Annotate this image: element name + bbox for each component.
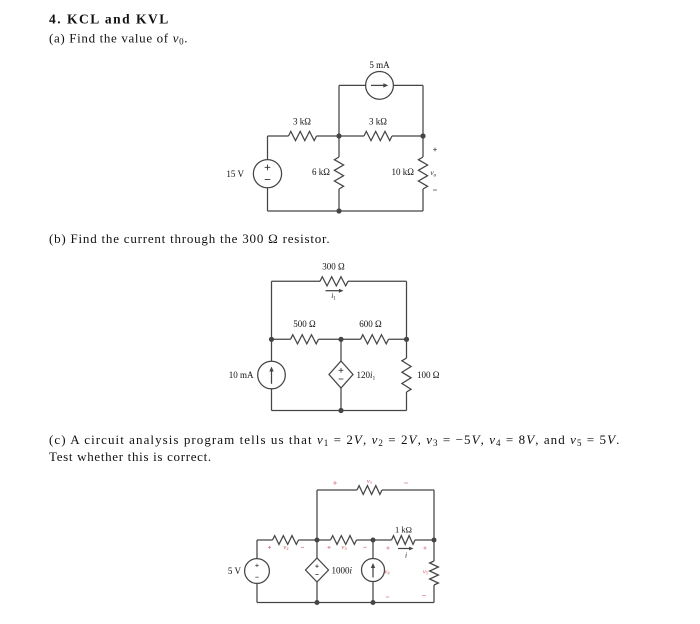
wire: middle branch lower [338,189,340,211]
wire: isrc branch upper [372,540,374,559]
label - of v3 [363,546,366,548]
wire: middle branch below diamond [340,388,342,411]
svg-text:1 kΩ: 1 kΩ [395,525,412,535]
svg-text:600 Ω: 600 Ω [359,319,382,329]
junction dot node B-right [404,337,409,342]
svg-text:15 V: 15 V [226,169,244,179]
wire: middle branch upper [338,136,340,157]
junction dot node C1 [315,538,320,543]
svg-text:500 Ω: 500 Ω [293,319,316,329]
resistor Rv2 (v2) [273,536,299,545]
svg-text:300 Ω: 300 Ω [322,261,345,271]
wire: mid segment left of R500 [272,338,291,340]
wire: node2 to R1k [373,539,392,541]
resistor R3 6 k&#937; vertical [334,157,343,189]
label - of v1 [404,482,408,484]
label - of vo [433,189,437,191]
wire: left branch to source [271,339,273,361]
svg-text:10 kΩ: 10 kΩ [392,167,415,177]
wire: top rail left of Rv1 [317,489,357,491]
current source I3 (v4) [362,559,385,582]
svg-text:6 kΩ: 6 kΩ [312,167,330,177]
label + of v3 [327,546,330,549]
wire: left branch lower [267,188,269,211]
wire: mid segment R600 to right [389,338,407,340]
wire: mid segment R1 to node [317,135,340,137]
resistor R600 600 &#937; [361,335,389,344]
resistor Rv5 (v5) vertical [430,561,439,585]
junction dot node C2 [371,538,376,543]
svg-text:(b) Find the current through t: (b) Find the current through the 300 Ω r… [49,231,330,246]
current arrow i [398,548,410,550]
wire: diamond branch lower [316,582,318,603]
svg-text:Test whether this is correct.: Test whether this is correct. [49,449,212,464]
junction dot node C2-bottom [371,600,376,605]
wire: right branch upper to Rv5 [433,540,435,561]
wire: mid segment node to R600 [341,338,361,340]
wire: right riser to 5 mA loop [422,85,424,136]
dependent source 1000i diamond [306,558,329,582]
junction dot node A-mid [336,133,341,138]
label - of v5 [422,595,425,597]
wire: diamond branch upper [316,540,318,558]
wire: mid segment node to R2 [339,135,364,137]
resistor R300 300 &#937; [320,277,348,286]
svg-text:3 kΩ: 3 kΩ [369,117,387,127]
label - of v2 [301,546,304,548]
resistor R1k 1 k&#937; [392,536,416,545]
junction dot node B-left [269,337,274,342]
wire: left branch upper [267,136,269,160]
junction dot node A-right [420,133,425,138]
wire: mid segment R500 to node [319,338,342,340]
wire: mid segment left of R1 [268,135,289,137]
wire: isrc branch lower [372,582,374,603]
current arrow i1 [326,290,340,292]
wire: right rail upper [406,281,408,339]
dependent source 120i1 diamond [329,361,353,388]
label + of v5 [423,546,426,549]
voltage source V2 5 V [245,559,270,584]
junction dot node A-bottom [336,208,341,213]
wire: middle branch to diamond [340,339,342,361]
wire: bottom rail circuit c [257,602,434,604]
svg-text:i: i [405,551,407,560]
wire: right branch lower [422,189,424,211]
voltage source V1 15 V [253,160,281,188]
wire: right branch below R100 [406,392,408,411]
svg-text:1000i: 1000i [332,566,353,576]
wire: top rail right of R300 [348,280,407,282]
junction dot node C-right [432,538,437,543]
resistor R500 500 &#937; [291,335,319,344]
label + of v2 [268,546,271,549]
svg-text:100 Ω: 100 Ω [417,370,440,380]
svg-text:(c) A circuit analysis program: (c) A circuit analysis program tells us … [49,432,620,448]
current source I2 10 mA [258,361,286,389]
label + of v4 [386,546,389,549]
wire: right riser top loop [433,490,435,540]
wire: right branch upper to R100 [406,339,408,358]
wire: left branch below source [271,389,273,411]
label - of v4 [386,596,389,598]
current source I1 5 mA [366,72,394,100]
svg-text:4. KCL and KVL: 4. KCL and KVL [49,12,170,27]
resistor Rv3 (v3) [331,536,357,545]
resistor Rv1 (v1) [357,486,382,495]
wire: mid segment R2 to right node [392,135,423,137]
label + of vo [433,148,437,152]
wire: top rail left of R300 [272,280,321,282]
wire: bottom rail circuit b [272,410,407,412]
wire: 5V branch lower [256,583,258,602]
junction dot node C1-bottom [315,600,320,605]
svg-text:5 V: 5 V [228,566,242,576]
wire: Rv3 to node2 [357,539,374,541]
label + of v1 [333,481,337,485]
wire: mid left of Rv2 [257,539,273,541]
svg-text:10 mA: 10 mA [229,370,254,380]
wire: top-left segment circuit a [339,84,366,86]
wire: left riser top loop [316,490,318,540]
wire: 5V branch upper [256,540,258,559]
resistor R4 10 k&#937; vertical [418,157,427,189]
svg-text:(a) Find the value of v0.: (a) Find the value of v0. [49,31,188,47]
junction dot node B-bottom [338,408,343,413]
wire: Rv2 to node1 [299,539,318,541]
resistor R1 3 k&#937; horizontal [289,131,317,140]
wire: right branch upper [422,136,424,157]
wire: node1 to Rv3 [317,539,331,541]
svg-text:5 mA: 5 mA [369,60,390,70]
wire: left rail upper [271,281,273,339]
resistor R100 100 &#937; vertical [402,358,411,392]
wire: left riser to 5 mA loop [338,85,340,136]
wire: R1k to right node [415,539,434,541]
wire: bottom rail circuit a [268,210,424,212]
wire: top rail right of Rv1 [382,489,434,491]
wire: top-right segment circuit a [393,84,423,86]
resistor R2 3 k&#937; horizontal [364,131,392,140]
junction dot node B-mid [338,337,343,342]
wire: right branch below Rv5 [433,585,435,603]
svg-text:3 kΩ: 3 kΩ [293,117,311,127]
